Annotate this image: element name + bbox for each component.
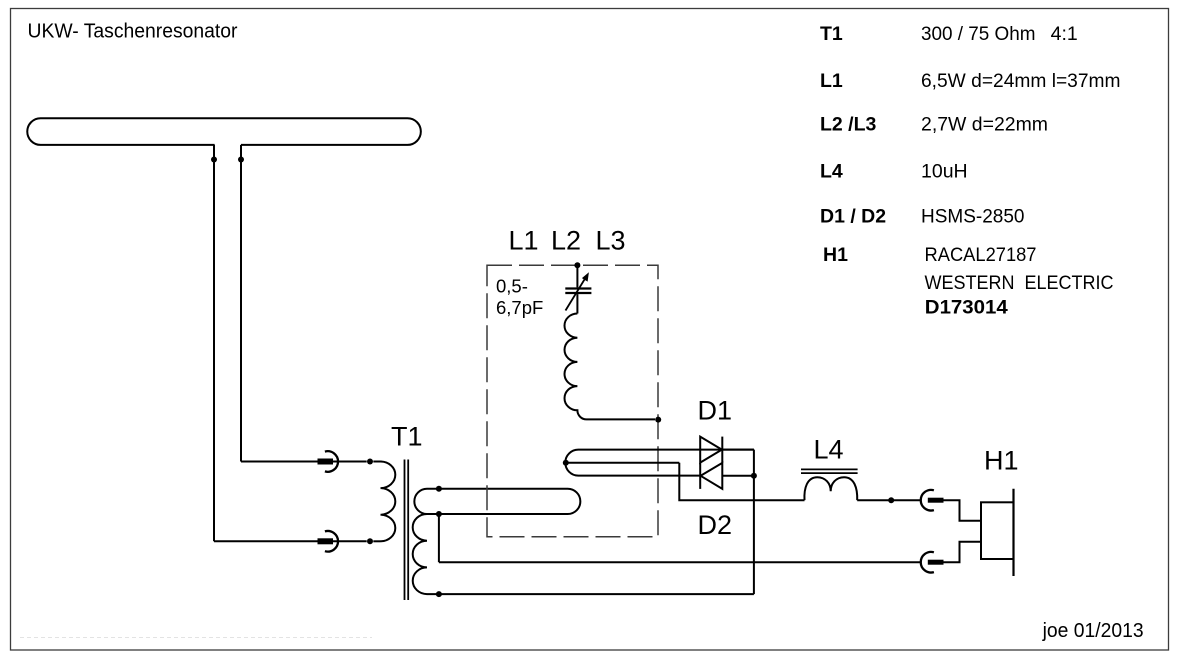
node L3 tap [563,460,569,466]
diode D2 [700,463,722,489]
wire plug to primary top [373,461,380,463]
node primary top [367,459,373,465]
wire antenna left feed [213,145,215,541]
node L1 bottom [436,511,442,517]
node L2 bottom end [655,417,661,423]
svg-text:L1: L1 [509,226,539,256]
wire D1 to rail [722,449,754,451]
parts list [820,23,1121,318]
node secondary bottom [436,591,442,597]
wire C1 bottom lead [576,294,578,313]
svg-text:0,5-: 0,5- [496,275,528,296]
wire C1 top lead [576,265,578,287]
svg-text:WESTERN ELECTRIC: WESTERN ELECTRIC [925,272,1114,294]
svg-text:D1: D1 [698,395,733,425]
connector plug top [318,451,367,472]
wire to top plug [241,461,318,463]
svg-text:L2: L2 [551,226,581,256]
wire secondary bottom to rail [427,593,754,595]
diode D1 [700,437,722,463]
svg-text:UKW- Taschenresonator: UKW- Taschenresonator [28,21,238,43]
svg-text:T1: T1 [391,422,423,452]
svg-text:L2 /L3: L2 /L3 [820,114,877,136]
svg-text:300 / 75 Ohm: 300 / 75 Ohm [921,23,1036,45]
node antenna right [238,157,244,163]
transformer T1 secondary winding [413,514,427,594]
wire L4 to jack [857,499,921,501]
svg-text:joe 01/2013: joe 01/2013 [1042,620,1144,642]
wire L1 tap down [438,514,440,562]
wire return line to H1 [439,561,921,563]
node primary bottom [367,538,373,544]
variable capacitor C1 arrow [566,277,587,311]
wire step to L4 [679,463,804,501]
svg-text:L4: L4 [820,160,843,182]
connector jack bottom [921,542,981,573]
inductor L4 core [801,469,858,473]
node antenna left [211,157,217,163]
svg-text:H1: H1 [823,244,848,266]
svg-text:HSMS-2850: HSMS-2850 [921,206,1025,228]
svg-text:L1: L1 [820,70,843,92]
svg-text:T1: T1 [820,23,843,45]
connector plug bottom [318,531,367,552]
svg-text:H1: H1 [984,446,1019,476]
node D2 rail junction [751,473,757,479]
transformer T1 core [405,460,409,601]
svg-text:D173014: D173014 [925,296,1008,318]
connector jack top [921,490,981,521]
coupling loop L3 [565,450,754,476]
svg-text:D1 / D2: D1 / D2 [820,206,886,228]
svg-text:2,7W d=22mm: 2,7W d=22mm [921,114,1048,136]
node L4 output [888,497,894,503]
svg-text:L4: L4 [814,435,844,465]
inductor L4 coil [804,477,857,500]
wire to bottom plug [214,540,318,542]
wire plug to primary bottom [373,540,380,542]
variable capacitor C1 plates [565,289,591,294]
wire L3 tap line [566,462,680,464]
svg-text:RACAL27187: RACAL27187 [925,244,1037,266]
transformer T1 primary winding [381,462,396,542]
dashed resonator box [487,265,658,537]
svg-text:6,5W d=24mm l=37mm: 6,5W d=24mm l=37mm [921,70,1121,92]
coupling loop L1 [414,489,580,514]
node C1 top [574,262,580,268]
svg-text:6,7pF: 6,7pF [496,297,543,318]
svg-text:4:1: 4:1 [1051,23,1078,45]
wire rail vertical [753,450,755,594]
wire D2 to rail [722,475,754,477]
inductor L2 coil [565,314,656,420]
node L1 top [436,486,442,492]
antenna folded dipole [27,118,421,145]
wire antenna right feed [240,145,242,462]
svg-text:10uH: 10uH [921,160,968,182]
headphone H1 [981,489,1014,576]
svg-text:L3: L3 [596,226,626,256]
svg-text:D2: D2 [698,510,733,540]
